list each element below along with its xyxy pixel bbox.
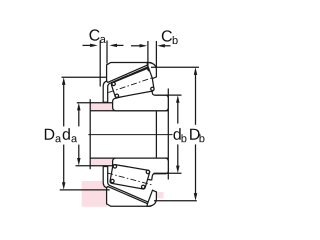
cage bottom (103, 166, 150, 205)
dimension Da extension line bottom (60, 189, 110, 191)
label Ca (90, 29, 106, 42)
dimension Ca arrow right (109, 44, 123, 48)
inner ring (cone) bottom (113, 158, 169, 180)
dimension Db extension line top (151, 66, 199, 68)
dimension Cb arrow left (131, 44, 147, 48)
roller top (111, 68, 153, 98)
dimension Ca extension line right (cup front face) (106, 41, 108, 64)
dimension da extension line top (shoulder top) (77, 102, 113, 104)
abutment pink: housing shoulder block bottom-left (82, 181, 107, 207)
inner ring (cone) top (113, 89, 169, 111)
abutment pink: shaft seat spacer top (91, 103, 113, 110)
dimension db extension line top (ring front top) (155, 94, 182, 96)
dimension Cb extension line left (147, 41, 149, 67)
shaft seat surface bottom (90, 157, 168, 159)
label da (63, 128, 77, 142)
roller axis centerline top (108, 77, 154, 93)
abutment pink: housing shoulder block bottom-right (157, 192, 163, 198)
outer ring (cup) bottom back block (147, 190, 156, 206)
shaft shoulder face (89, 99, 91, 169)
roller axis centerline bottom (107, 173, 153, 185)
bottom bearing (mirror) (103, 158, 168, 206)
cup back face extension through shaft (155, 111, 157, 158)
dimension Ca extension line left (99, 41, 101, 87)
dimension Da line with arrows (62, 77, 65, 190)
dimension db line with arrows (176, 95, 180, 173)
label db (173, 128, 186, 142)
dimension Ca arrow left (83, 44, 98, 48)
dimension da extension line bottom (76, 165, 113, 167)
dimension da line with arrows (77, 103, 81, 166)
shaft seat surface top (90, 110, 168, 112)
dimension Db line with arrows (194, 67, 198, 200)
outer ring (cup) top back block (147, 63, 156, 79)
label Da (45, 129, 61, 143)
roller end corner radii bottom (113, 165, 116, 168)
dimension Cb arrow right (157, 44, 170, 48)
cage top (103, 63, 150, 102)
shaft right step face (167, 89, 169, 180)
label Cb (162, 30, 178, 44)
outer ring (cup) bottom wedge (107, 186, 152, 206)
label Db (190, 129, 204, 143)
roller bottom (explicit) (110, 165, 150, 189)
dimension Cb extension line right (155, 41, 157, 67)
shaft centerline (88, 134, 172, 136)
abutment pink: shaft seat spacer bottom (91, 158, 113, 165)
outer ring (cup) top wedge (107, 63, 152, 83)
top bearing (103, 63, 168, 111)
roller end corner radii top (112, 82, 115, 85)
dimension Da extension line top (62, 76, 107, 78)
dimension db extension line bottom (154, 172, 182, 174)
dimension Db extension line bottom (154, 200, 197, 202)
